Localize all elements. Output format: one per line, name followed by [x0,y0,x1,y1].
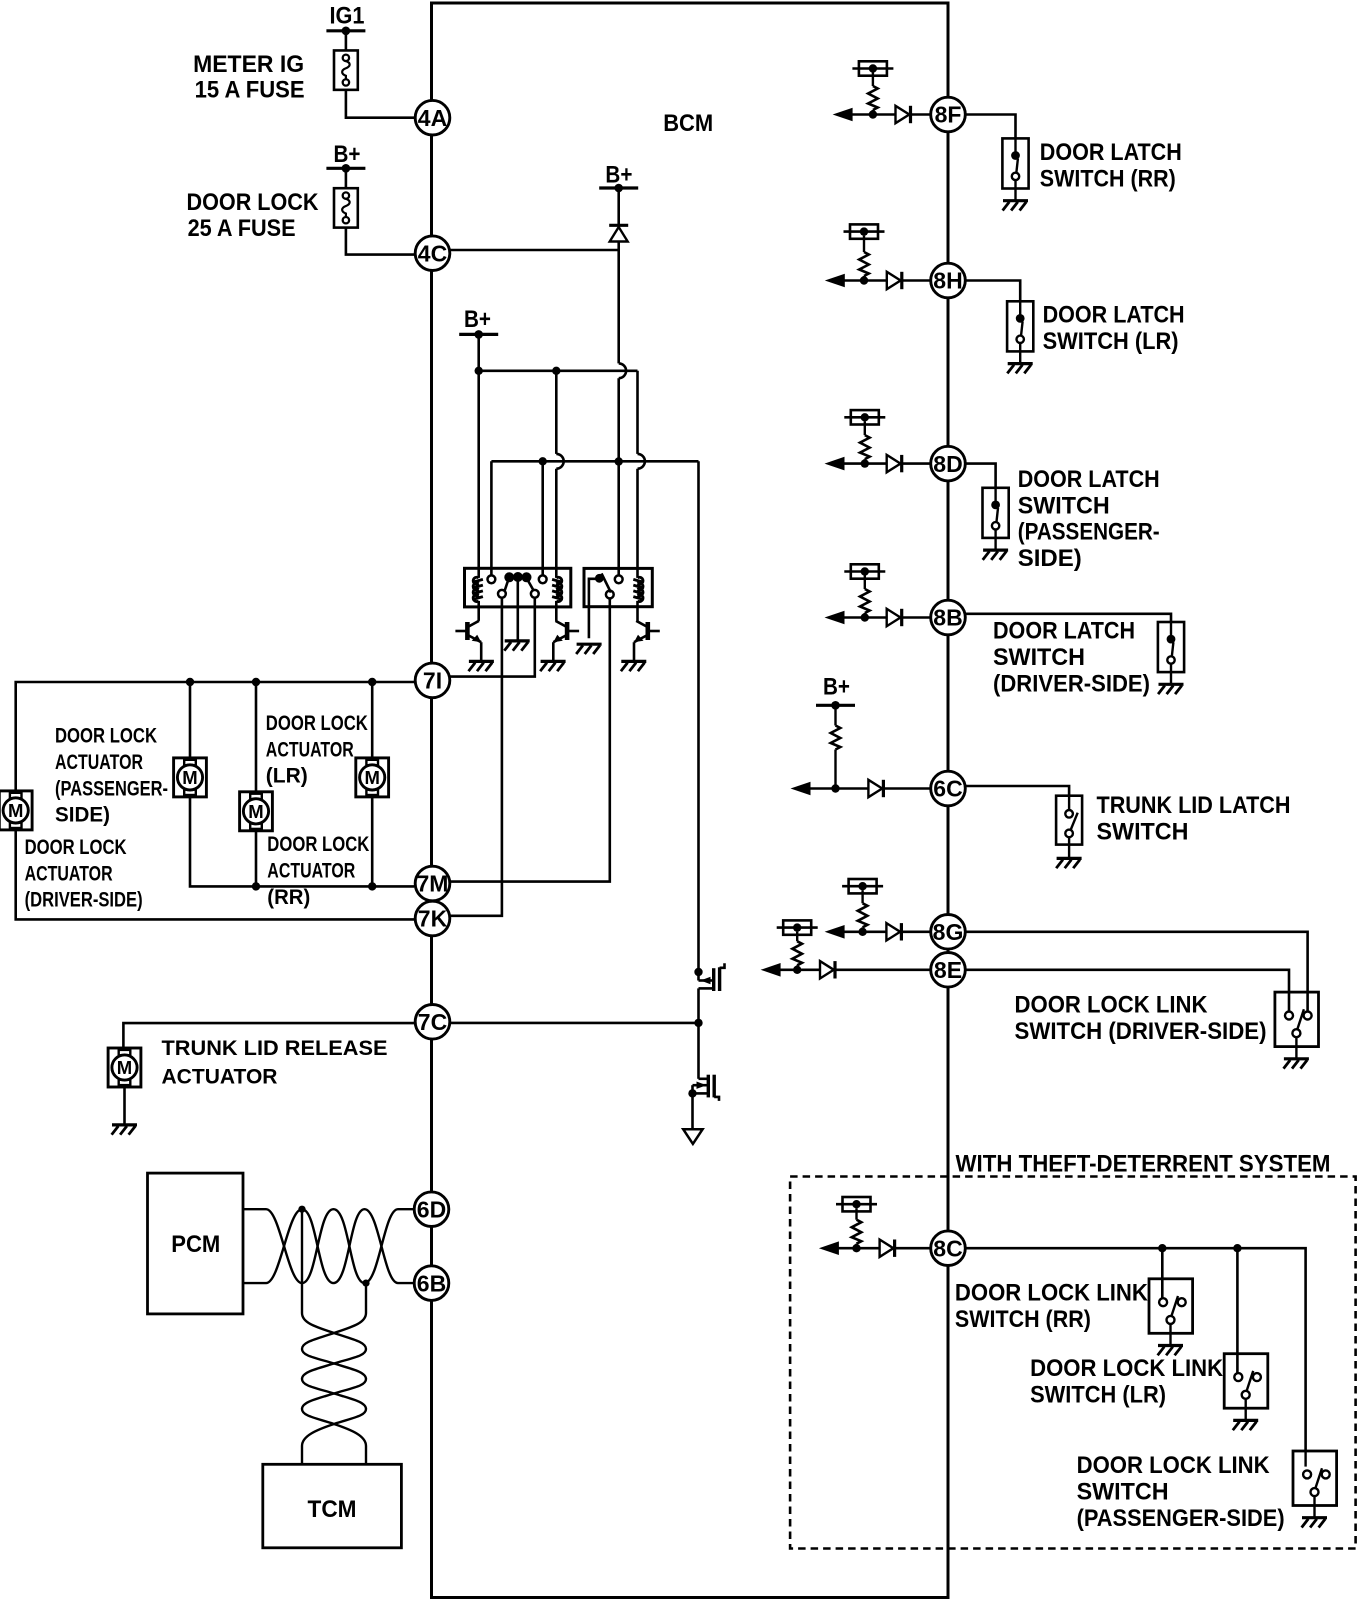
wire pull-up to resistor (pin 8G) [861,890,863,903]
wire resistor to junction (pin 8C) [855,1244,857,1249]
connector pin 4A [415,100,450,135]
arrow to other circuits (pin 8D) [825,457,845,471]
svg-text:DOOR LOCK: DOOR LOCK [187,189,319,216]
svg-text:8F: 8F [935,102,962,128]
power symbol IG1 [326,29,365,32]
junction dot (bus 2 to contact 2) [539,457,547,465]
wire pull-up to resistor (pin 8E) [796,932,798,942]
svg-text:8D: 8D [933,451,962,477]
svg-text:METER IG: METER IG [193,51,304,78]
svg-text:ACTUATOR: ACTUATOR [162,1066,278,1089]
internal pull-up (pin 8H) [844,230,885,233]
wire K3 coil to Q3 collector [636,607,639,621]
arrow to other circuits (pin 8C) [819,1241,839,1255]
svg-text:7M: 7M [417,871,449,897]
wire pin 8F to door latch switch RR [965,115,1015,139]
svg-text:ACTUATOR: ACTUATOR [55,751,143,774]
wire Q4 source to 7C rail [697,988,700,1023]
junction dot (bus to LR link switch) [1233,1244,1241,1252]
door latch switch (passenger-side) [983,488,1009,538]
connector pin 6B [414,1266,449,1301]
wire bus to RR link switch [1161,1248,1164,1298]
relay fixed contact 1 [488,575,496,583]
wire pin 8B to door latch switch driver [965,614,1171,622]
svg-text:DOOR LATCH: DOOR LATCH [993,618,1135,645]
connector pin 6D [414,1192,449,1227]
fuse F2 DOOR LOCK 25 A [334,188,358,227]
svg-text:DOOR LATCH: DOOR LATCH [1043,301,1185,328]
wire B+ down to relay K1 coil [477,334,480,578]
ground (K3 pivot) [577,643,602,646]
diode (pin 8C) [880,1240,894,1257]
wire relay feed bus 1 [479,369,638,372]
wire moving contact 2 to pin 7I [450,598,535,677]
relay K3 moving contact [606,591,614,599]
svg-text:PCM: PCM [171,1231,220,1258]
junction dot (Q5 source) [688,1089,696,1097]
door lock link switch (LR) [1224,1354,1268,1409]
resistor (pin 8F) [868,86,878,110]
relay K1/K2 box [465,568,571,607]
svg-text:8G: 8G [933,919,964,945]
wire actuator M5 to ground [123,1087,126,1125]
svg-text:SWITCH: SWITCH [1018,492,1110,519]
svg-text:6D: 6D [417,1196,446,1222]
wire K2 coil to Q2 collector [555,607,558,621]
motor M4 door lock actuator LR [356,758,389,797]
junction dot (tap to TCM, wire 2) [362,1280,369,1287]
internal pull-up (pin 8E) [777,926,818,929]
svg-text:IG1: IG1 [330,3,365,30]
wire pull-up to resistor (pin 8F) [872,73,874,87]
door latch switch (RR) [1002,138,1028,188]
transistor Q4 (p-MOSFET) [697,972,700,981]
svg-text:B+: B+ [334,141,361,168]
wire bus 2 left corner to contact 1 [490,461,493,575]
svg-text:TRUNK LID RELEASE: TRUNK LID RELEASE [162,1037,388,1060]
svg-text:DOOR LOCK: DOOR LOCK [55,725,157,748]
wire K1 coil to Q1 collector [477,607,480,621]
svg-text:(PASSENGER-: (PASSENGER- [55,777,168,800]
door latch switch (driver-side) [1158,622,1184,672]
ground (Q2 emitter) [541,660,566,663]
wire bus1 corner down to K3 coil with hop over bus 2 [636,371,639,454]
motor M5 trunk lid release actuator [108,1048,141,1087]
relay K3 pivot [595,574,604,583]
connector pin 8F [931,97,966,132]
wire bus 2 to contact 2 [541,461,544,575]
wire junction to relay K3 fixed contact [617,462,620,576]
wire relay feed bus 2 [491,460,698,463]
wire pull-up to resistor (pin 8B) [864,576,866,590]
wire diode to pin 8F [912,113,931,116]
relay arm 1 [505,579,509,591]
relay K2 coil [556,577,561,584]
junction dot (7C rail) [694,1019,702,1027]
wire resistor to junction (pin 8H) [863,276,865,281]
door lock link switch (driver-side) [1275,992,1319,1047]
junction dot (B+ rail / bus 1) [475,367,483,375]
fuse F1 METER IG 15 A [334,50,358,89]
svg-text:BCM: BCM [663,110,713,137]
svg-text:8H: 8H [933,268,962,294]
diode D1 (clamp, cathode up) [609,224,628,227]
resistor (pin 8C) [852,1220,862,1244]
wire resistor to junction (pin 6C) [834,750,836,789]
relay K3 arm [602,573,611,592]
connector pin 8G [931,915,966,950]
svg-text:DOOR LOCK LINK: DOOR LOCK LINK [1077,1452,1270,1479]
svg-text:4C: 4C [418,240,447,266]
svg-text:SWITCH (RR): SWITCH (RR) [1040,165,1176,192]
svg-text:8C: 8C [933,1235,962,1261]
connector pin 7C [415,1005,450,1040]
wire pin 6C to trunk lid latch switch [965,786,1069,796]
wire diode to pin 8C [896,1247,931,1250]
junction dot (pin 8E) [793,966,801,974]
diode (pin 8D) [887,455,901,472]
junction dot (actuator bus) [368,678,376,686]
svg-text:M: M [364,767,379,788]
wire diode to pin 8D [903,462,931,465]
wire bus to actuator M2 [189,682,192,758]
connector pin 6C [931,771,966,806]
svg-text:SWITCH: SWITCH [1077,1479,1169,1506]
resistor (pin 8H) [859,252,869,276]
ground (Q3 emitter) [621,660,646,663]
diode (pin 8F) [896,106,910,123]
BCM module box [432,3,949,1598]
wire IG1 to fuse [345,31,348,51]
power symbol B+ (door lock fuse) [326,167,365,170]
junction dot (pin 8B) [861,613,869,621]
svg-text:6C: 6C [933,776,962,802]
transistor Q2 [565,622,570,640]
arrow to other circuits (pin 8E) [761,963,781,977]
wire pull-up to resistor (pin 8D) [864,421,866,435]
svg-text:M: M [8,800,23,821]
transistor Q3 [645,622,650,640]
wire pin 7C to trunk release actuator [123,1023,414,1048]
connector pin 7I [415,663,450,698]
svg-text:ACTUATOR: ACTUATOR [266,738,354,761]
wire M4 to bottom bus [371,797,374,887]
door lock link switch (RR) [1149,1279,1193,1334]
svg-text:DOOR LOCK LINK: DOOR LOCK LINK [1030,1355,1223,1382]
wire pivot to ground [516,581,519,640]
svg-text:8B: 8B [933,605,962,631]
wire B+ to resistor (pin 6C) [834,705,836,725]
wire resistor to junction (pin 8B) [864,613,866,618]
svg-text:SIDE): SIDE) [1018,545,1082,572]
connector pin 8D [931,446,966,481]
diode (pin 6C) [868,780,882,797]
svg-text:M: M [248,801,263,822]
motor M3 door lock actuator RR [240,792,273,831]
svg-text:SWITCH: SWITCH [993,644,1085,671]
svg-text:(RR): (RR) [267,886,310,909]
svg-text:(PASSENGER-: (PASSENGER- [1018,519,1160,546]
junction dot (pin 8D) [861,459,869,467]
svg-text:ACTUATOR: ACTUATOR [267,860,355,883]
svg-text:25 A FUSE: 25 A FUSE [188,215,296,242]
relay K3 box [584,568,652,606]
svg-text:DOOR LOCK LINK: DOOR LOCK LINK [955,1280,1148,1307]
wire arrow to diode (pin 8C) [837,1247,880,1250]
diode (pin 8G) [886,923,900,940]
wire pull-up to resistor (pin 8H) [863,236,865,252]
relay arm 2 [527,579,534,591]
wire diode to pin 8H [903,279,931,282]
wire arrow to diode (pin 8B) [843,616,887,619]
power symbol B+ (relay coils) [459,333,498,336]
junction dot (Q4 drain) [694,968,702,976]
door lock link switch (passenger-side) [1293,1451,1337,1506]
svg-text:DOOR LOCK: DOOR LOCK [267,833,369,856]
junction dot (pin 6C) [831,784,839,792]
connector pin 8C [931,1231,966,1266]
svg-text:B+: B+ [823,674,850,701]
svg-text:WITH THEFT-DETERRENT SYSTEM: WITH THEFT-DETERRENT SYSTEM [956,1151,1331,1178]
wire pin 4C to D1 branch [450,249,619,252]
diode (pin 8E) [820,961,834,978]
wire pin 8C link switch bus [965,1248,1305,1451]
relay fixed contact 2 [539,575,547,583]
svg-text:DOOR LATCH: DOOR LATCH [1040,139,1182,166]
wire arrow to diode (pin 8E) [779,968,820,971]
svg-text:DOOR LATCH: DOOR LATCH [1018,466,1160,493]
ground (Q1 emitter) [469,660,494,663]
svg-text:TCM: TCM [308,1496,357,1523]
wire B+ to diode D1 [617,188,620,225]
junction dot (pin 8H) [860,276,868,284]
wire moving contact 1 to pin 7K [450,598,502,916]
wire bus to actuator M3 [255,682,258,792]
wire K2 coil feed with hop over bus 2 [555,371,558,454]
resistor (pin 6C) [831,726,841,750]
module TCM box [263,1464,402,1548]
junction dot (bottom bus) [368,882,376,890]
wire bus to actuator M4 [371,682,374,758]
wire diode to pin 8E [836,968,931,971]
wire pin 8E to link switch left contact [965,970,1289,1012]
svg-text:B+: B+ [464,306,491,333]
svg-text:SWITCH (LR): SWITCH (LR) [1043,328,1179,355]
junction dot (actuator bus) [252,678,260,686]
diode (pin 8B) [887,609,901,626]
wire pull-up to resistor (pin 8C) [855,1208,857,1220]
wire 7C bus [449,1022,699,1025]
wire Q5 source to ground [691,1093,694,1129]
wire resistor to junction (pin 8E) [796,965,798,970]
svg-text:(LR): (LR) [266,765,308,788]
svg-text:M: M [117,1057,132,1078]
wire resistor to junction (pin 8G) [861,927,863,932]
wire fuse F2 to pin 4C [346,228,414,255]
wire resistor to junction (pin 8F) [872,110,874,115]
arrow to other circuits (pin 8B) [825,611,845,625]
svg-text:ACTUATOR: ACTUATOR [25,862,113,885]
twisted pair to TCM [302,1209,366,1464]
resistor (pin 8E) [792,941,802,965]
svg-text:7I: 7I [423,668,442,694]
resistor (pin 8G) [858,903,868,927]
svg-text:4A: 4A [418,105,447,131]
wire bus to LR link switch [1236,1248,1239,1373]
connector pin 8B [931,600,966,635]
svg-text:SWITCH: SWITCH [1097,818,1189,845]
dashed box theft-deterrent system [790,1177,1356,1549]
arrow to other circuits (pin 6C) [791,782,811,796]
svg-text:DOOR LOCK LINK: DOOR LOCK LINK [1015,991,1208,1018]
relay K1 coil [473,577,478,584]
relay moving contact 1 [498,590,506,598]
power symbol B+ (clamp diode) [599,186,638,189]
junction dot (bottom bus) [252,882,260,890]
wire pin 8D to door latch switch passenger [965,464,995,488]
wire resistor to junction (pin 8D) [864,459,866,464]
power symbol B+ (pin 6C) [816,704,855,707]
wire diode to pin 6C [885,787,931,790]
arrow to other circuits (pin 8H) [825,274,845,288]
svg-text:6B: 6B [417,1270,446,1296]
connector pin 7K [415,901,450,936]
trunk lid latch switch [1056,796,1082,845]
connector pin 8H [931,263,966,298]
wire actuator M1 to pin 7K [16,830,415,920]
resistor (pin 8B) [860,589,870,613]
wire arrow to diode (pin 6C) [809,787,869,790]
wire K3 pivot to ground [589,579,599,638]
svg-text:7C: 7C [418,1009,447,1035]
wire pin 8H to door latch switch LR [965,281,1020,302]
motor M2 door lock actuator passenger-side [174,758,207,797]
svg-text:M: M [182,767,197,788]
internal pull-up (pin 8D) [844,416,885,419]
wire M3 to bottom bus [255,831,258,887]
relay moving contact 2 [531,590,539,598]
relay K3 fixed contact [615,575,623,583]
junction dot (bus 1 to K2 coil) [552,367,560,375]
transistor Q1 [465,622,470,640]
junction dot (bus to RR link switch) [1158,1244,1166,1252]
door latch switch (LR) [1007,301,1033,351]
svg-text:8E: 8E [934,957,962,983]
transistor Q5 (n-MOSFET) [697,1023,700,1079]
resistor (pin 8D) [860,435,870,459]
wire bus corner into passenger link switch [1304,1451,1306,1467]
svg-text:DOOR LOCK: DOOR LOCK [266,712,368,735]
wire pin 8G to link switch right contact [965,932,1307,1012]
internal pull-up (pin 8B) [844,570,885,573]
svg-text:DOOR LOCK: DOOR LOCK [25,836,127,859]
diode (pin 8H) [887,272,901,289]
connector pin 4C [415,236,450,271]
svg-text:7K: 7K [418,906,448,932]
wire arrow to diode (pin 8F) [851,113,896,116]
wire fuse F1 to pin 4A [346,90,414,118]
relay pivot bar [504,572,514,582]
module PCM box [148,1173,244,1314]
internal pull-up (pin 8F) [852,67,893,70]
ground (floating triangle) [683,1129,702,1144]
twisted pair PCM to pins 6D/6B [243,1209,413,1283]
wire arrow to diode (pin 8H) [843,279,887,282]
svg-text:(DRIVER-SIDE): (DRIVER-SIDE) [25,889,143,912]
wire bus 2 right corner down to Q4 drain [697,461,700,972]
wire arrow to diode (pin 8D) [843,462,887,465]
internal pull-up (pin 8C) [836,1203,877,1206]
connector pin 8E [931,953,966,988]
junction dot (D1 branch to bus 2) [615,457,623,465]
motor M1 door lock actuator driver-side [0,791,32,830]
ground (relay pivot) [505,639,530,642]
wire arrow to diode (pin 8G) [843,930,887,933]
svg-text:SWITCH (DRIVER-SIDE): SWITCH (DRIVER-SIDE) [1015,1018,1267,1045]
wire D1 anode down / hop over relay bus 1 [617,242,620,364]
wire actuator bottom bus to pin 7M [190,797,414,887]
junction dot (tap to TCM, wire 1) [298,1206,305,1213]
svg-text:TRUNK LID LATCH: TRUNK LID LATCH [1097,792,1291,819]
ground (trunk release actuator) [112,1123,137,1126]
svg-text:SIDE): SIDE) [55,804,110,827]
wire K3 moving contact to pin 7M [450,598,610,881]
connector pin 7M [415,866,450,901]
internal pull-up (pin 8G) [842,885,883,888]
svg-text:SWITCH (LR): SWITCH (LR) [1030,1381,1166,1408]
svg-text:SWITCH (RR): SWITCH (RR) [955,1306,1091,1333]
wire diode to pin 8B [903,616,931,619]
arrow to other circuits (pin 8F) [833,108,853,122]
junction dot (pin 8C) [852,1244,860,1252]
junction dot (pin 8G) [858,928,866,936]
svg-text:(PASSENGER-SIDE): (PASSENGER-SIDE) [1077,1505,1285,1532]
junction dot (actuator bus) [186,678,194,686]
wire 7I actuator bus [16,682,415,791]
relay K3 coil [638,577,643,584]
svg-text:15 A FUSE: 15 A FUSE [195,77,305,104]
junction dot (pin 8F) [869,110,877,118]
svg-text:(DRIVER-SIDE): (DRIVER-SIDE) [993,670,1150,697]
arrow to other circuits (pin 8G) [825,925,845,939]
wire diode to pin 8G [903,930,931,933]
wire B+ to fuse F2 [345,168,348,188]
